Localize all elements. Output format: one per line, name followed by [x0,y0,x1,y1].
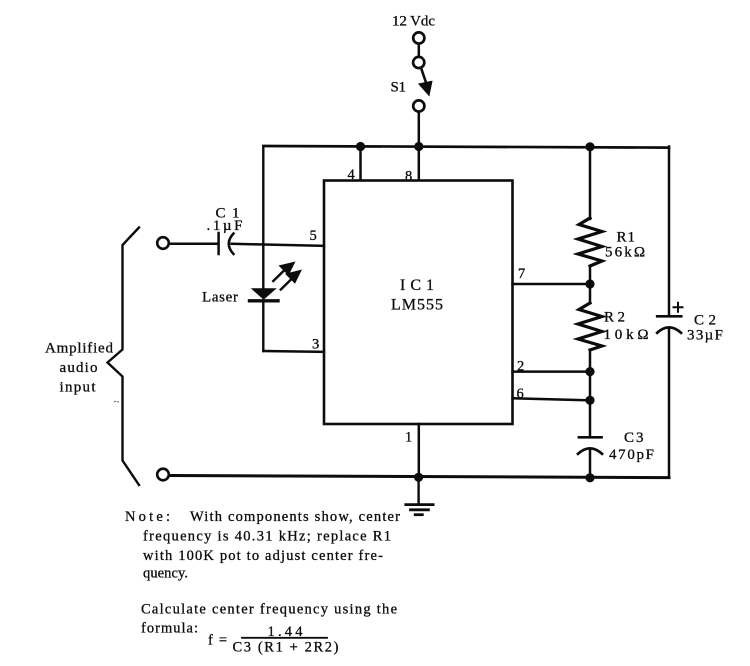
svg-text:C3: C3 [624,430,644,446]
formula fraction bar [242,637,327,639]
capacitor C3 bottom plate [578,448,602,453]
svg-text:5: 5 [310,228,317,244]
laser diode D1 emission arrow 2 [281,270,302,290]
pin 8 label [405,169,412,185]
resistor R1 label [605,230,645,261]
wire switch to top rail [418,112,421,147]
junction dot C3 bottom rail [585,473,594,482]
junction dot pin8 rail [414,142,423,151]
switch S1 terminal circle top [413,32,424,43]
capacitor C2 bottom plate [657,327,681,332]
wire rail to R1 [589,147,592,219]
IC1 LM555 label [391,277,443,314]
junction dot pin6 node [585,396,594,405]
wire pin6 [513,398,591,400]
capacitor C1 label [207,206,243,235]
capacitor C3 label [609,430,654,463]
note text [125,509,400,582]
svg-text:quency.: quency. [143,566,188,582]
laser diode D1 triangle [251,288,277,300]
wire pin4 [359,147,362,181]
pin 7 label [518,266,525,282]
svg-text:7: 7 [518,266,525,282]
svg-text:Laser: Laser [202,290,238,306]
laser diode D1 cathode bar [250,299,279,302]
wire R2 to C3 [589,350,592,437]
svg-text:IC1: IC1 [400,277,434,294]
laser label [202,290,238,306]
wire laser cathode down [262,302,264,351]
wire pin8 [418,147,421,181]
wire pin7 [513,283,591,286]
junction dot pin1 bottom rail [414,473,423,482]
svg-text:R1: R1 [617,230,636,246]
svg-text:470pF: 470pF [609,447,654,463]
op-amp U1 IC1 LM555 box [324,181,513,425]
wire top rail [264,146,670,148]
capacitor C2 top plate [657,315,681,318]
wire 12Vdc to switch [418,44,421,57]
svg-text:6: 6 [517,386,524,402]
capacitor C2 plus sign [674,303,683,312]
svg-text:Calculate center frequency usi: Calculate center frequency using the [141,602,397,618]
svg-text:frequency is 40.31 kHz; replac: frequency is 40.31 kHz; replace R1 [143,529,391,545]
pin 2 label [517,359,524,375]
wire laser to pin3 [263,350,324,353]
svg-text:3: 3 [312,337,319,353]
pin 3 label [312,337,319,353]
pin 6 label [517,386,524,402]
pin 1 label [405,430,412,446]
capacitor C3 top plate [579,436,602,439]
noise dots [115,401,119,403]
switch S1 label [391,80,407,96]
svg-text:10kΩ: 10kΩ [604,327,649,343]
svg-text:56kΩ: 56kΩ [605,245,645,261]
junction dot pin4 rail [356,142,365,151]
svg-text:1: 1 [405,430,412,446]
svg-text:.1µF: .1µF [207,218,243,234]
brace amplified audio input [108,228,140,486]
pin 4 label [348,167,356,183]
svg-text:input: input [60,380,97,396]
svg-text:With components show, center: With components show, center [190,509,400,525]
laser diode D1 emission arrow 1 [273,262,295,282]
node audio input top terminal [157,237,169,249]
wire pin1 [418,424,421,477]
switch S1 throw circle [413,100,424,111]
node 12Vdc label [392,14,435,30]
capacitor C1 left plate [217,233,220,254]
svg-text:audio: audio [60,360,98,376]
svg-text:Amplified: Amplified [45,341,114,357]
switch S1 arm [421,68,427,84]
svg-text:12 Vdc: 12 Vdc [392,14,435,30]
svg-text:2: 2 [517,359,524,375]
node audio input bottom terminal [157,469,169,481]
svg-text:f =: f = [208,633,227,649]
svg-text:formula:: formula: [141,621,198,637]
svg-text:with 100K pot to adjust center: with 100K pot to adjust center fre- [143,548,383,564]
wire top rail to laser anode [262,147,264,289]
wire C3 to bottom rail [589,450,592,478]
wire R1 to pin7 node [589,266,592,303]
capacitor C1 right plate [229,234,234,255]
resistor R2 [578,303,602,350]
pin 5 label [310,228,317,244]
wire C1 to pin5 [232,244,325,246]
formula text [141,602,397,656]
resistor R1 [578,218,602,266]
ground [406,477,433,514]
wire bottom rail [169,476,669,478]
switch S1 pole circle [413,57,424,68]
resistor R2 label [604,310,649,344]
svg-text:C3 (R1 + 2R2): C3 (R1 + 2R2) [233,640,339,656]
switch S1 arrowhead [418,81,433,97]
wire C2 to bottom rail [668,329,671,478]
wire rail to C2 [668,147,671,317]
wire input to C1 [169,242,217,245]
capacitor C2 label [687,313,723,344]
junction dot pin2 node [585,367,594,376]
svg-text:S1: S1 [391,80,407,96]
svg-text:LM555: LM555 [391,297,443,314]
wire pin2 [513,370,591,373]
junction dot R1 rail [585,142,594,151]
svg-text:33µF: 33µF [687,328,723,344]
junction dot pin7 node [585,279,594,288]
amplified audio input label [45,341,114,396]
